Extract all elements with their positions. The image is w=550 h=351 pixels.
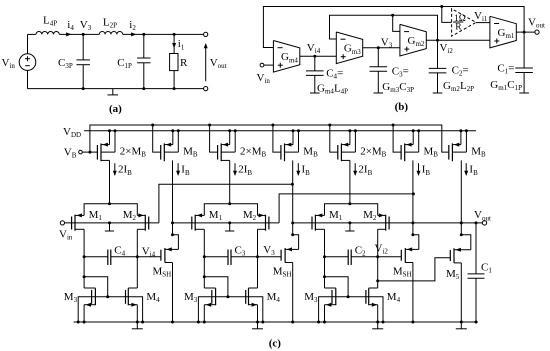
node mirror line left on rail cell1 (77, 321, 80, 324)
signal line cell3 and output (follower2 output to Vout) (293, 222, 483, 224)
inductor L4P (28, 31, 60, 34)
input terminal Vin (c) (60, 221, 64, 225)
node C1P bottom junction (142, 87, 145, 90)
transistor M4 cell3 (366, 288, 378, 322)
node integrator output cell3 (376, 255, 379, 258)
ground symbol cell2 (252, 322, 263, 329)
transistor MB3 (2xMB) PMOS current source (218, 129, 237, 161)
node V3 (b) (377, 46, 380, 49)
resistor R with current arrow i1 (170, 34, 178, 88)
label C1 = Gm1 C1P (490, 63, 522, 93)
transistor MB5 (2xMB) PMOS current source (338, 129, 357, 161)
node Vout line junction (460, 221, 463, 224)
wire Gm1 output to Vout terminal (516, 31, 535, 33)
wire Gm4 minus feedback from Vout (top wire) (263, 7, 524, 48)
node M3 source on rail cell1 (83, 321, 86, 324)
bulk bias symbol of pair cell2 (225, 221, 234, 231)
node tail junction cell2 (228, 202, 231, 205)
capacitor C1 (515, 32, 533, 93)
wire top tap to 1/R input (442, 7, 452, 23)
node cap left junction cell3 (323, 255, 326, 258)
bulk bias symbol of pair cell1 (105, 221, 114, 231)
node integrator output cell1 (136, 255, 139, 258)
terminal VB (79, 150, 83, 154)
node cap left junction cell2 (203, 255, 206, 258)
transistor M1 cell2 (192, 213, 205, 230)
node Vi2 (436, 39, 439, 42)
transistor M3 cell2 (204, 288, 215, 322)
node mirror line right on rail cell3 (382, 321, 385, 324)
node follower source junction cell1 (171, 233, 174, 236)
wire cell1 M2 gate feedback to follower2 (over-route) (159, 183, 294, 223)
node mirror line left on rail cell2 (197, 321, 200, 324)
node MSH drain on rail cell1 (171, 321, 174, 324)
transistor M4 cell1 (126, 288, 138, 322)
node M3 source on rail cell3 (323, 321, 326, 324)
node MSH drain on rail cell2 (291, 321, 294, 324)
wire M2 drain riser cell3 (377, 229, 379, 288)
wire mirror gate line cell3 (319, 297, 383, 322)
wire Gm3 output to Gm2 plus input (363, 47, 400, 49)
wire M2 drain riser cell2 (257, 229, 259, 288)
wire VB tap to gate of MB3 (2xMB) (208, 124, 218, 153)
wire M2 drain riser cell1 (136, 229, 138, 288)
transistor M3 cell3 (325, 288, 336, 322)
transistor MB2 (MB) PMOS current source (161, 129, 180, 161)
output terminal Vout (b) (535, 30, 539, 34)
output terminal top (a) (204, 32, 208, 36)
capacitor C4 (84, 250, 161, 266)
transistor MSH cell3 source follower (401, 235, 419, 322)
node M3 source on rail cell2 (203, 321, 206, 324)
current arrow IB of MB7 (MB) (464, 163, 468, 176)
svg-text:(c): (c) (269, 337, 282, 349)
output terminal Vout (c) (482, 221, 486, 225)
current arrow IB of MB4 (MB) (296, 163, 300, 176)
node R bottom junction (173, 87, 176, 90)
wire mirror gate line cell1 (78, 297, 142, 322)
current arrow IB of MB6 (MB) (417, 163, 421, 176)
capacitor C4 (306, 56, 324, 93)
node C1 top (475, 221, 478, 224)
transistor M3 cell1 (84, 288, 95, 322)
capacitor C1 (c) (468, 223, 485, 322)
wire Gm4 output to Gm3 plus input (300, 55, 337, 57)
node C1 bottom on rail (475, 321, 478, 324)
bottom wire (a) (28, 88, 204, 90)
op-amp transconductor Gm3 (336, 32, 362, 64)
wire follower bias line cell1 (172, 160, 174, 234)
wire top to output terminal (174, 33, 204, 35)
wire output PMOS drain to Vout node (460, 160, 462, 234)
ground rail (bottom) (74, 321, 478, 323)
current arrow 2IB of MB5 (2xMB) (353, 163, 357, 176)
label C2 = Gm2 L2P (443, 65, 474, 94)
svg-text:(b): (b) (395, 101, 409, 113)
signal line cell1 (Vin to M2 gate riser) (65, 222, 159, 224)
ground symbol cell3 (372, 322, 383, 329)
svg-text:R: R (180, 57, 188, 69)
wire M1 drain riser cell3 (324, 229, 326, 288)
svg-text:(a): (a) (109, 103, 122, 115)
transistor MB6 (MB) PMOS current source (401, 129, 420, 161)
wire tail rail cell1 (84, 204, 137, 216)
node follower source junction cell3 (411, 233, 414, 236)
node junction Gm2 minus tap (391, 14, 394, 17)
transistor M1 cell1 (72, 213, 85, 230)
wire follower bias line cell3 (412, 160, 414, 234)
node MSH drain on rail cell3 (411, 321, 414, 324)
node follower to M2 gate cell3 (411, 221, 414, 224)
wire diode connection M3 cell1 (83, 275, 110, 298)
node follower source junction cell2 (291, 233, 294, 236)
label 1 ohm over R (453, 14, 466, 33)
transistor M2 cell3 (378, 213, 389, 230)
wire M5 gate from Vi2 node (376, 258, 450, 283)
wire M1 drain riser cell1 (83, 229, 85, 288)
node mirror line right on rail cell1 (141, 321, 144, 324)
node tail junction cell1 (108, 202, 111, 205)
capacitor C2 (325, 250, 402, 266)
transistor M2 cell2 (258, 213, 269, 230)
wire 1/R output to Gm1 minus input (node Vi1) (476, 22, 490, 24)
node M4 source on rail cell3 (376, 321, 379, 324)
wire VB tap to gate of MB5 (2xMB) (328, 124, 338, 153)
signal line cell2 (follower1 output to M2 gate riser) (173, 222, 280, 224)
ground symbol cell1 (132, 322, 143, 329)
node junction 1/R tap on top wire (440, 5, 443, 8)
capacitor C2 (429, 40, 447, 93)
op-amp transconductor Gm2 (400, 24, 426, 56)
node VB riser junction (88, 151, 91, 154)
dashed resistor-simulating transconductor 1/R (452, 9, 476, 37)
wire follower bias line cell2 (292, 160, 294, 234)
transistor MB7 (MB) PMOS current source (449, 129, 468, 161)
node C1P top junction (142, 33, 145, 36)
current arrow IB of MB2 (MB) (176, 163, 180, 176)
capacitor C3 (204, 250, 281, 266)
node V3 (a) (82, 33, 85, 36)
wire VB tap to gate of MB4 (MB) (271, 124, 281, 153)
capacitor C1P (137, 34, 150, 88)
wire M1 drain riser cell2 (203, 229, 205, 288)
node R top junction (173, 33, 176, 36)
wire Vin to Gm4 plus input (264, 64, 274, 66)
wire diode connection M3 cell3 (323, 275, 350, 298)
transistor M5 output follower (450, 235, 471, 322)
op-amp transconductor Gm1 (490, 16, 516, 48)
op-amp transconductor Gm4 (273, 41, 299, 73)
transistor M4 cell2 (246, 288, 258, 322)
wire diode connection M3 cell2 (203, 275, 230, 298)
bulk bias symbol of pair cell3 (345, 221, 354, 231)
transistor MSH cell1 source follower (161, 235, 179, 322)
wire VB tap to gate of MB6 (MB) (392, 124, 402, 153)
wire tail current cell1: PMOS drain to differential pair (101, 160, 110, 203)
capacitor C3 (370, 48, 388, 93)
wire L2P to output node with current arrow i2 (123, 32, 144, 36)
node Vout (b) (523, 31, 526, 34)
node M4 source on rail cell2 (256, 321, 259, 324)
wire tail current cell3: PMOS drain to differential pair (341, 160, 350, 203)
node mirror line right on rail cell2 (261, 321, 264, 324)
wire VB tap to gate of MB2 (MB) (151, 124, 161, 153)
input terminal Vin (b) (260, 63, 264, 67)
node V3 bottom junction (82, 87, 85, 90)
VB bias line (top) (90, 125, 449, 152)
ground (a) (108, 89, 119, 95)
transistor MB4 (MB) PMOS current source (281, 129, 300, 161)
wire VB terminal to first gate (82, 151, 97, 153)
node tail junction cell3 (348, 202, 351, 205)
node mirror line left on rail cell3 (317, 321, 320, 324)
transistor MB1 (2xMB) PMOS current source (97, 129, 116, 161)
current arrow 2IB of MB3 (2xMB) (233, 163, 237, 176)
transistor MSH cell2 source follower (281, 235, 299, 322)
voltage source Vin (19, 34, 36, 88)
node cap left junction cell1 (83, 255, 86, 258)
node M5 drain on rail (460, 321, 463, 324)
inductor L2P (83, 31, 123, 34)
output terminal bottom (a) (204, 87, 208, 91)
wire mirror gate line cell2 (198, 297, 262, 322)
wire top to R junction (144, 33, 174, 35)
node M4 source on rail cell1 (136, 321, 139, 324)
wire L4P to node V3 with current arrow i4 (59, 32, 83, 36)
node M5 source junction (460, 233, 463, 236)
wire Gm3 minus feedback from Vi2 (330, 15, 438, 40)
ground symbol output (456, 322, 467, 329)
wire tail rail cell3 (325, 204, 378, 216)
label C3 = Gm3 C3P (382, 66, 414, 95)
node Vi4 (313, 55, 316, 58)
node integrator output cell2 (256, 255, 259, 258)
wire cell2 M2 gate feedback to follower3 (over-route) (279, 192, 415, 223)
output voltage arrow Vout (a) (204, 43, 208, 81)
transistor M2 cell1 (137, 213, 148, 230)
label C4 = Gm4 L4P (317, 68, 348, 96)
wire Gm2 output to Gm1 plus input (426, 39, 490, 41)
node follower to M2 gate cell2 (291, 221, 294, 224)
VDD rail (84, 130, 476, 132)
svg-text:R: R (455, 23, 462, 33)
wire tail rail cell2 (204, 204, 257, 216)
wire Gm2 minus from tap (393, 15, 400, 31)
transistor M1 cell3 (312, 213, 325, 230)
node follower to M2 gate cell1 (171, 221, 174, 224)
capacitor C3P (77, 34, 90, 88)
current arrow 2IB of MB1 (2xMB) (113, 163, 117, 176)
wire tail current cell2: PMOS drain to differential pair (221, 160, 230, 203)
